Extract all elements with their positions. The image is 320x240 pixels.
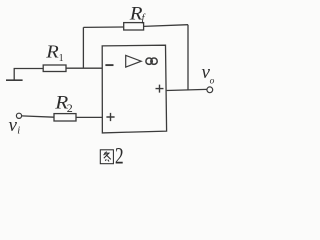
svg-text:2: 2 [115, 144, 124, 170]
wire ground to R1 [14, 68, 44, 70]
wire feedback drop to output [187, 25, 189, 90]
svg-text:R: R [129, 4, 143, 25]
ground [13, 69, 15, 80]
label R1 [45, 43, 59, 62]
op-amp non-inverting input marker [106, 113, 114, 121]
wire riser top to Rf [83, 26, 123, 28]
wire R1 to op-amp inverting input [66, 67, 102, 69]
svg-text:2: 2 [67, 101, 73, 115]
label R2 [54, 93, 68, 114]
caption: hand-drawn CJK 图 [100, 150, 113, 164]
wire R2 to op-amp non-inverting input [76, 116, 102, 118]
svg-text:R: R [45, 43, 59, 62]
resistor R2 [54, 114, 76, 121]
svg-text:1: 1 [59, 53, 64, 64]
label Rf [129, 4, 143, 25]
op-amp U1 body [102, 45, 166, 133]
op-amp inverting input marker [105, 64, 113, 66]
svg-text:i: i [17, 125, 20, 136]
terminal vo [207, 87, 213, 93]
wire vi to R2 [22, 116, 54, 117]
output polarity marker + [156, 85, 164, 93]
wire Rf to feedback corner [144, 25, 188, 27]
svg-text:o: o [210, 76, 215, 86]
op-amp infinity gain symbol [146, 58, 152, 64]
resistor R1 [43, 65, 66, 72]
terminal vi [16, 113, 21, 118]
op-amp triangle symbol [126, 55, 142, 67]
wire riser to feedback [82, 27, 84, 68]
wire op-amp output to vo terminal [167, 89, 207, 90]
resistor Rf [124, 23, 144, 30]
svg-text:v: v [9, 115, 18, 136]
